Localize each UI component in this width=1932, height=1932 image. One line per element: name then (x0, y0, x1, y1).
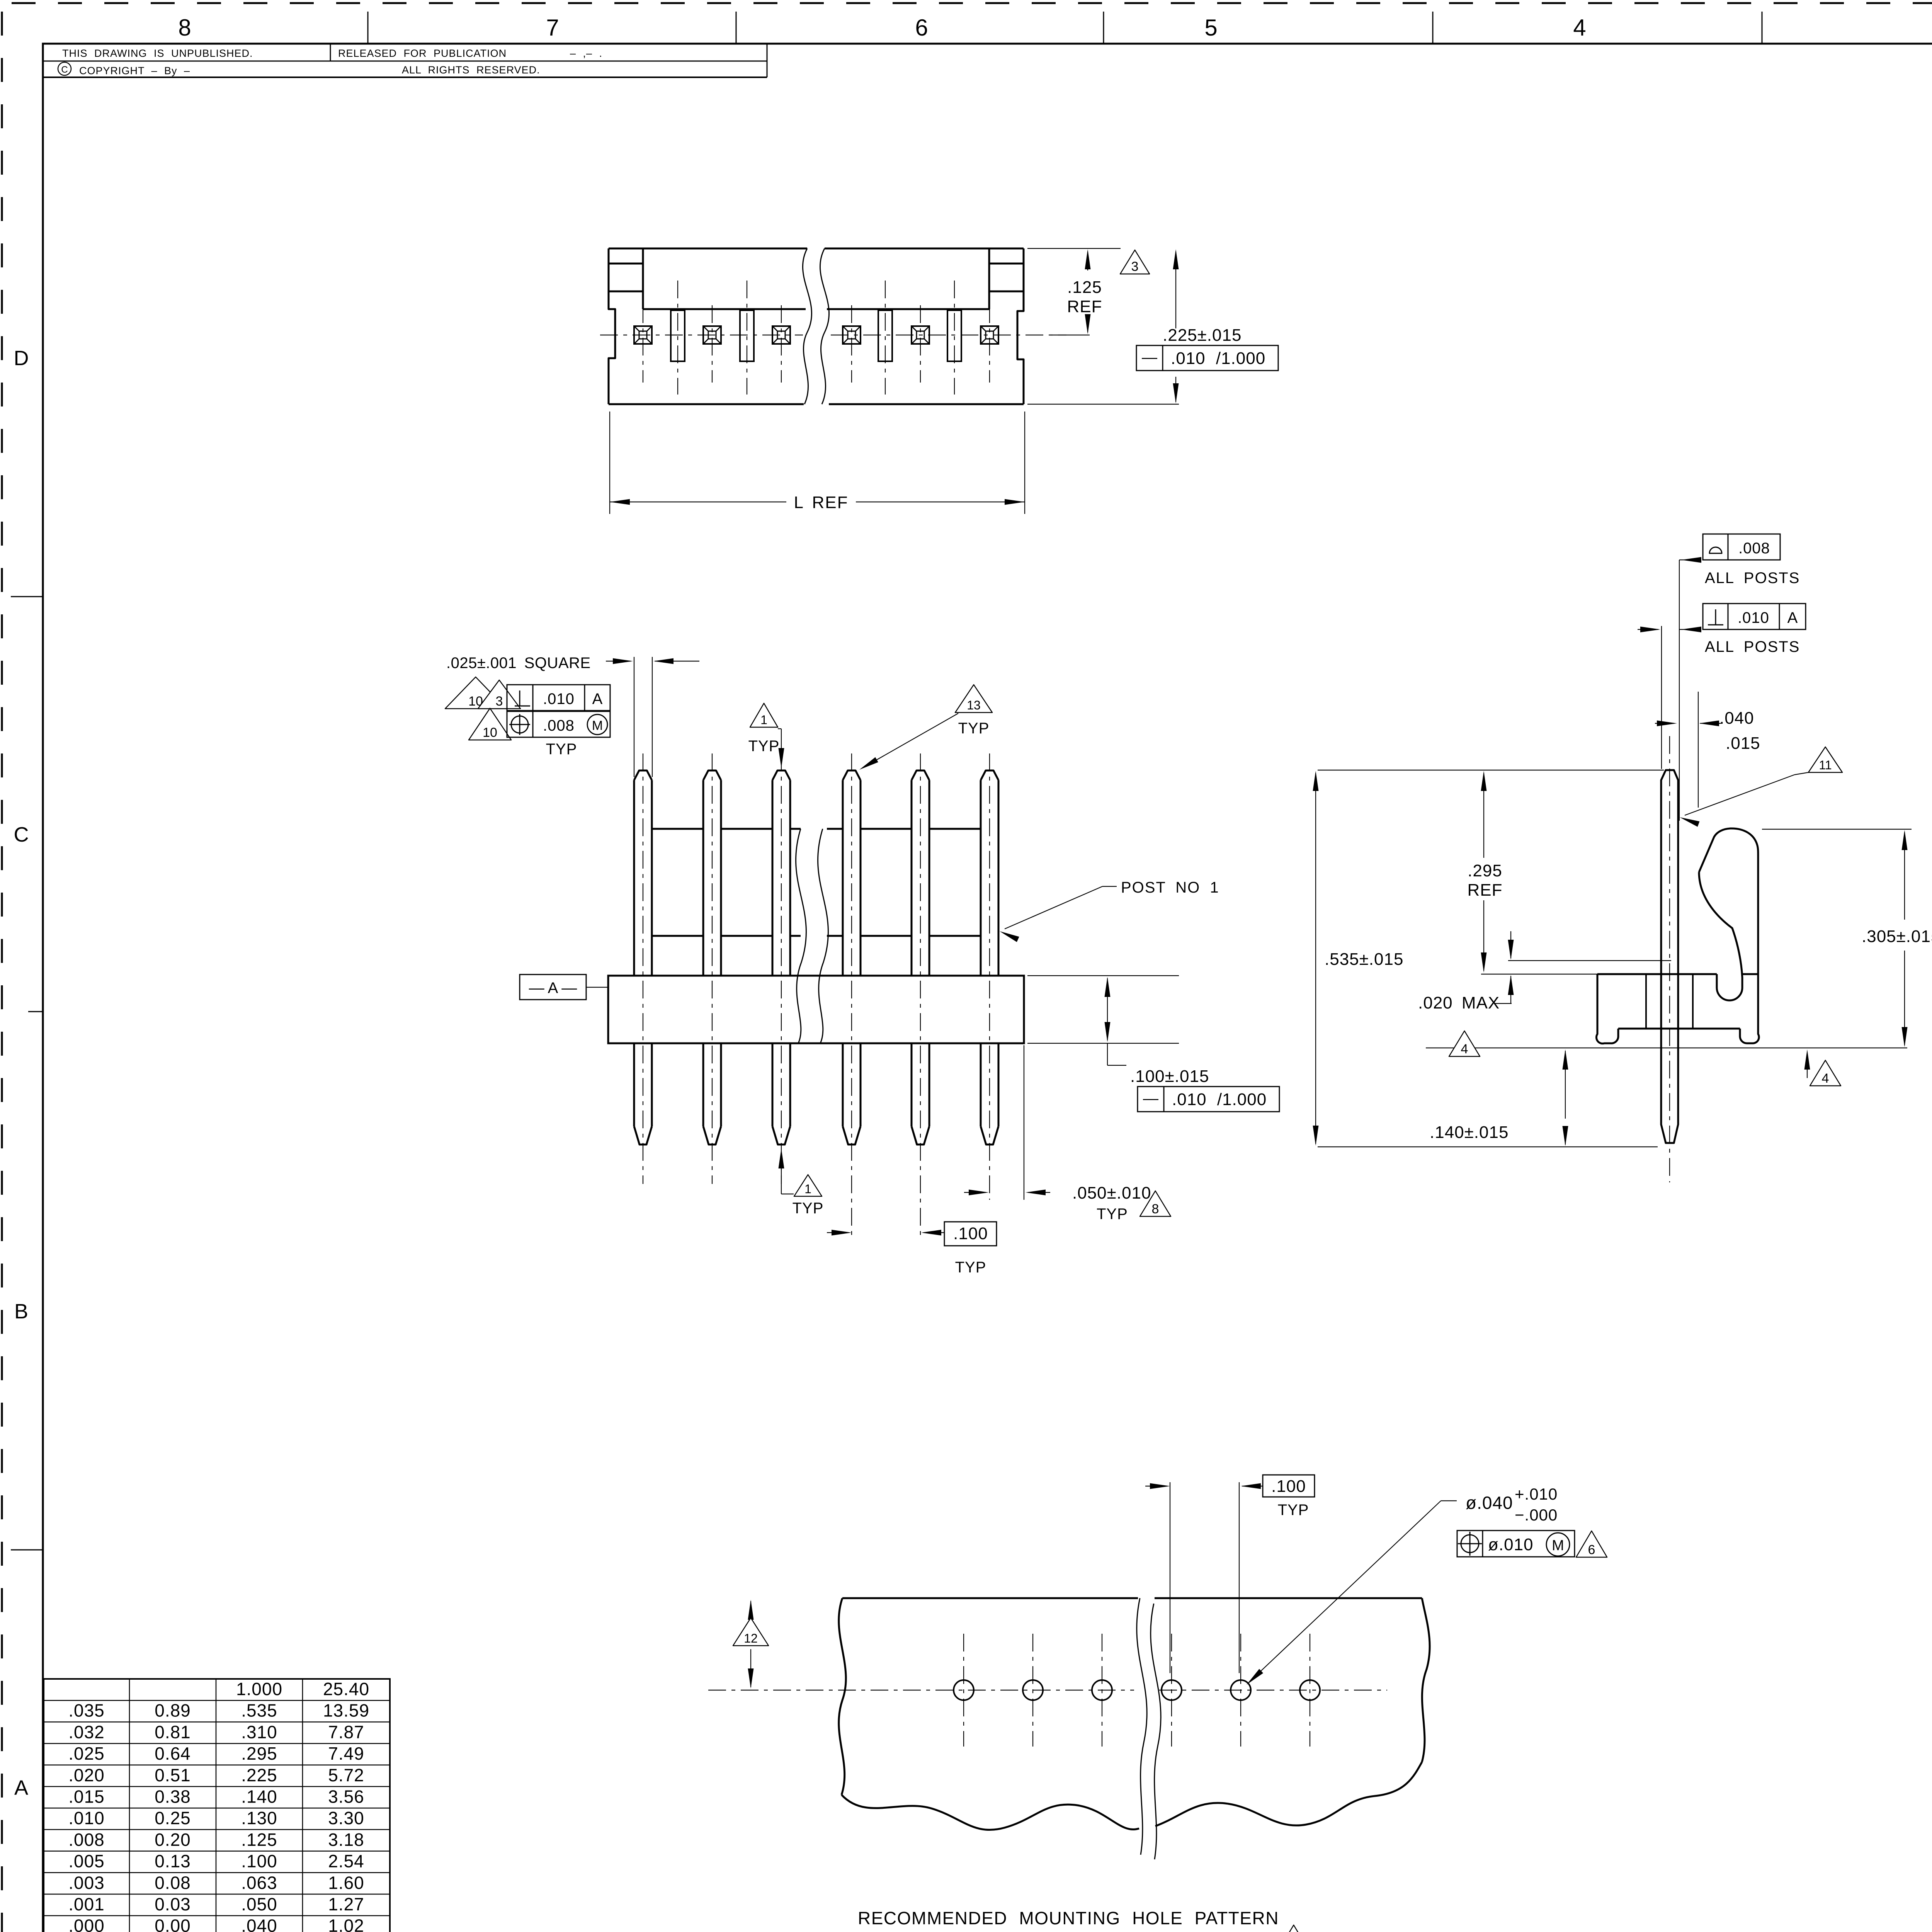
svg-text:ø.040: ø.040 (1466, 1493, 1513, 1513)
top view post tail rect (671, 310, 685, 361)
top view square pin 5 (912, 326, 929, 344)
svg-text:THIS DRAWING IS UNPUBLISHED.: THIS DRAWING IS UNPUBLISHED. (62, 48, 253, 59)
svg-text:.040: .040 (241, 1916, 277, 1932)
svg-text:6: 6 (915, 15, 928, 41)
svg-text:.225±.015: .225±.015 (1163, 326, 1242, 345)
svg-text:0.08: 0.08 (155, 1872, 191, 1893)
pc board outline (842, 1597, 1138, 1599)
side view polarizing hook outer (1699, 828, 1758, 974)
zone ticks left (11, 596, 43, 597)
sheet center mark left (28, 1011, 43, 1012)
svg-text:6: 6 (1588, 1543, 1595, 1557)
mounting hole 3 (1092, 1680, 1112, 1700)
feature frame position .008 M (507, 711, 610, 737)
svg-text:.025±.001 SQUARE: .025±.001 SQUARE (446, 655, 591, 672)
svg-text:ALL POSTS: ALL POSTS (1705, 570, 1800, 587)
svg-text:RECOMMENDED MOUNTING HOLE PATT: RECOMMENDED MOUNTING HOLE PATTERN (858, 1908, 1279, 1928)
dimension .100 TYP front (827, 1232, 849, 1233)
svg-text:TYP: TYP (1097, 1206, 1128, 1223)
svg-text:3: 3 (496, 694, 503, 709)
side view post (1661, 770, 1678, 1143)
front view post 6 (981, 770, 998, 780)
svg-text:.010: .010 (543, 690, 575, 707)
svg-text:13.59: 13.59 (323, 1701, 369, 1721)
svg-text:COPYRIGHT – By –: COPYRIGHT – By – (79, 65, 190, 77)
svg-text:.535±.015: .535±.015 (1325, 950, 1403, 969)
pc board torn right edge (1422, 1598, 1430, 1762)
note triangle 8 flag (1140, 1191, 1171, 1216)
dimension .100 TYP holes (1170, 1482, 1170, 1673)
dimension .535+-.015 (1318, 770, 1664, 770)
front view post 5 (912, 770, 929, 780)
svg-text:RELEASED FOR PUBLICATION: RELEASED FOR PUBLICATION (338, 48, 507, 59)
svg-text:0.25: 0.25 (155, 1808, 191, 1828)
svg-text:ALL POSTS: ALL POSTS (1705, 638, 1800, 655)
leader lines for side FCF frames (1679, 560, 1701, 560)
svg-text:.305±.015: .305±.015 (1862, 927, 1932, 946)
conversion table (44, 1679, 390, 1932)
svg-text:—: — (1142, 349, 1157, 366)
top view left corner box (642, 248, 644, 309)
svg-text:TYP: TYP (955, 1259, 986, 1276)
svg-text:TYP: TYP (546, 741, 577, 758)
top view square pin 1 (634, 326, 652, 344)
svg-text:8: 8 (1152, 1202, 1159, 1216)
svg-text:3: 3 (1131, 259, 1139, 274)
copyright block top-left (43, 61, 767, 62)
svg-text:A: A (1787, 609, 1798, 626)
datum A box (520, 975, 586, 1000)
svg-text:.003: .003 (68, 1872, 105, 1893)
front view post 1 (634, 770, 652, 780)
svg-text:.005: .005 (68, 1851, 105, 1871)
svg-text:TYP: TYP (958, 720, 990, 737)
dimension L REF (609, 412, 610, 514)
svg-text:4: 4 (1822, 1071, 1829, 1086)
svg-text:A: A (592, 690, 603, 707)
svg-text:.225: .225 (241, 1765, 277, 1785)
svg-text:0.81: 0.81 (155, 1722, 191, 1742)
svg-text:.310: .310 (241, 1722, 277, 1742)
svg-text:REF: REF (1468, 881, 1503, 900)
top view square pin 3 (772, 326, 790, 344)
dimension .100+-.015 base height (1027, 975, 1179, 976)
pc board torn bottom edge (842, 1795, 1139, 1830)
datum frame triangles 10 3 (445, 677, 506, 709)
svg-text:— A —: — A — (529, 980, 577, 997)
note triangle 4 left (1449, 1031, 1480, 1056)
dimension .020 MAX (1508, 960, 1671, 961)
svg-text:L REF: L REF (794, 493, 848, 512)
svg-text:0.20: 0.20 (155, 1830, 191, 1850)
svg-text:4: 4 (1573, 15, 1586, 41)
svg-text:4: 4 (1461, 1042, 1468, 1056)
svg-text:D: D (14, 347, 29, 370)
svg-text:.140±.015: .140±.015 (1430, 1123, 1509, 1142)
svg-text:.035: .035 (68, 1701, 105, 1721)
dimension .295 REF (1481, 974, 1597, 975)
sheet center mark top (1432, 12, 1434, 44)
dimension .225+-.015 (1027, 404, 1179, 405)
top view face line (643, 308, 806, 310)
svg-text:B: B (14, 1300, 28, 1323)
svg-text:7.49: 7.49 (328, 1743, 364, 1764)
dimension .140+-.015 (1565, 1051, 1566, 1119)
front view housing base (608, 976, 1024, 1043)
svg-text:A: A (14, 1776, 28, 1799)
svg-text:0.03: 0.03 (155, 1894, 191, 1914)
svg-text:—: — (1143, 1090, 1158, 1107)
svg-text:.010: .010 (68, 1808, 105, 1828)
callout 1 TYP top (750, 703, 778, 727)
svg-text:.015: .015 (68, 1787, 105, 1807)
callout 13 TYP (955, 685, 992, 713)
svg-text:3.30: 3.30 (328, 1808, 364, 1828)
hole diameter callout (1441, 1500, 1457, 1501)
top view square pin 2 (703, 326, 721, 344)
front view break lines (796, 829, 806, 1043)
dimension .305+-.015 (1762, 829, 1912, 830)
front view post 4 (843, 770, 861, 780)
note triangle 2 flag (1277, 1925, 1310, 1932)
top view post tail rect (878, 310, 892, 361)
svg-text:.015: .015 (1726, 734, 1760, 753)
svg-text:.295: .295 (241, 1743, 277, 1764)
top view square pin 6 (981, 326, 998, 344)
svg-text:ø.010: ø.010 (1488, 1535, 1534, 1554)
feature frame perpendicularity .010 A (507, 685, 610, 711)
svg-text:.125: .125 (241, 1830, 277, 1850)
svg-text:0.38: 0.38 (155, 1787, 191, 1807)
svg-text:8: 8 (178, 15, 191, 41)
svg-text:1: 1 (804, 1182, 811, 1196)
svg-text:.050±.010: .050±.010 (1072, 1184, 1151, 1202)
svg-text:.140: .140 (241, 1787, 277, 1807)
side view polarizing hook inner (1699, 872, 1742, 1000)
svg-text:.025: .025 (68, 1743, 105, 1764)
svg-text:.032: .032 (68, 1722, 105, 1742)
board reference line (1426, 1048, 1907, 1048)
svg-text:13: 13 (967, 698, 981, 712)
svg-text:REF: REF (1067, 297, 1102, 316)
svg-text:−.000: −.000 (1515, 1506, 1558, 1524)
svg-text:.008: .008 (1738, 540, 1770, 557)
pc board torn left edge (839, 1598, 846, 1795)
mounting hole 2 (1023, 1680, 1043, 1700)
front view web lines (652, 828, 703, 830)
svg-text:0.89: 0.89 (155, 1701, 191, 1721)
svg-text:.100: .100 (953, 1224, 988, 1243)
top view post tail rect (740, 310, 754, 361)
svg-text:1.000: 1.000 (236, 1679, 282, 1699)
top view header body outline (609, 248, 615, 404)
svg-text:C: C (61, 65, 68, 75)
top view break lines (803, 248, 811, 404)
dimension .125 REF (1027, 248, 1121, 249)
svg-text:1.02: 1.02 (328, 1916, 364, 1932)
svg-text:ALL RIGHTS RESERVED.: ALL RIGHTS RESERVED. (402, 64, 540, 76)
svg-text:0.13: 0.13 (155, 1851, 191, 1871)
side view housing base (1597, 973, 1717, 975)
svg-text:25.40: 25.40 (323, 1679, 369, 1699)
svg-text:0.00: 0.00 (155, 1916, 191, 1932)
svg-text:.295: .295 (1468, 861, 1502, 880)
front view post 2 (703, 770, 721, 780)
svg-text:3.56: 3.56 (328, 1787, 364, 1807)
top view horizontal centerline (600, 335, 803, 335)
mounting hole 5 (1231, 1680, 1251, 1700)
top view right corner box (988, 248, 990, 309)
svg-text:TYP: TYP (1278, 1502, 1309, 1519)
svg-text:5: 5 (1204, 15, 1217, 41)
mounting hole 4 (1162, 1680, 1182, 1700)
svg-text:TYP: TYP (748, 738, 780, 755)
sheet border dashes top (12, 2, 1932, 4)
svg-text:+.010: +.010 (1515, 1485, 1558, 1503)
top view post tail rect (947, 310, 961, 361)
svg-text:.010 /1.000: .010 /1.000 (1171, 349, 1265, 368)
svg-text:3.18: 3.18 (328, 1830, 364, 1850)
dimension .050+-.010 TYP (1024, 1045, 1024, 1200)
sheet border dashes left (1, 12, 3, 1932)
note triangle 3 flag (1120, 250, 1150, 274)
svg-text:.050: .050 (241, 1894, 277, 1914)
feature control frame .010/1.000 top view (1136, 345, 1278, 371)
svg-text:.010: .010 (1738, 609, 1769, 626)
svg-text:12: 12 (744, 1631, 758, 1645)
flatness frame .008 (1703, 534, 1780, 560)
svg-text:.008: .008 (68, 1830, 105, 1850)
mounting holes centerline horizontal (708, 1690, 1134, 1690)
svg-text:.040: .040 (1719, 709, 1754, 728)
svg-text:11: 11 (1819, 758, 1832, 772)
svg-text:TYP: TYP (793, 1200, 824, 1217)
svg-text:POST NO 1: POST NO 1 (1121, 879, 1219, 896)
mounting hole 1 (954, 1680, 974, 1700)
callout 1 TYP bottom (779, 1148, 784, 1168)
svg-text:.010 /1.000: .010 /1.000 (1172, 1090, 1267, 1109)
zone ticks top (367, 12, 369, 44)
svg-text:.063: .063 (241, 1872, 277, 1893)
svg-text:.020 MAX: .020 MAX (1418, 993, 1500, 1012)
dimension .040/.015 tip (1698, 692, 1699, 808)
svg-text:1: 1 (760, 713, 767, 727)
svg-text:.100±.015: .100±.015 (1130, 1067, 1209, 1086)
svg-text:.100: .100 (1271, 1477, 1306, 1496)
svg-text:5.72: 5.72 (328, 1765, 364, 1785)
svg-text:7.87: 7.87 (328, 1722, 364, 1742)
svg-text:M: M (592, 718, 603, 733)
svg-text:.130: .130 (241, 1808, 277, 1828)
svg-text:1.60: 1.60 (328, 1872, 364, 1893)
callout 11 (1808, 747, 1842, 772)
svg-text:.535: .535 (241, 1701, 277, 1721)
svg-text:.100: .100 (241, 1851, 277, 1871)
dimension triangle 12 board edge to holes (750, 1601, 751, 1619)
svg-text:.008: .008 (543, 717, 575, 734)
front view post 3 (772, 770, 790, 780)
svg-text:0.64: 0.64 (155, 1743, 191, 1764)
svg-text:.000: .000 (68, 1916, 105, 1932)
perpendicularity frame .010 A side view (1703, 604, 1806, 629)
mounting hole 6 (1300, 1680, 1320, 1700)
svg-text:.020: .020 (68, 1765, 105, 1785)
svg-text:0.51: 0.51 (155, 1765, 191, 1785)
svg-text:C: C (14, 823, 29, 846)
svg-text:M: M (1552, 1537, 1564, 1554)
svg-text:10: 10 (483, 725, 497, 740)
datum triangle 10 row2 (469, 708, 511, 740)
svg-text:1.27: 1.27 (328, 1894, 364, 1914)
pc board break lines (1137, 1598, 1147, 1855)
side view base inner lines (1645, 974, 1647, 1029)
svg-text:7: 7 (546, 15, 559, 41)
svg-text:.125: .125 (1067, 278, 1102, 297)
note triangle 4 right (1804, 1049, 1810, 1070)
top view square pin 4 (843, 326, 861, 344)
svg-text:2.54: 2.54 (328, 1851, 364, 1871)
feature control frame .010/1.000 front view (1138, 1087, 1279, 1112)
svg-text:– ,– .: – ,– . (570, 48, 602, 59)
position frame dia .010 M 6 (1457, 1531, 1575, 1557)
svg-text:.001: .001 (68, 1894, 105, 1914)
